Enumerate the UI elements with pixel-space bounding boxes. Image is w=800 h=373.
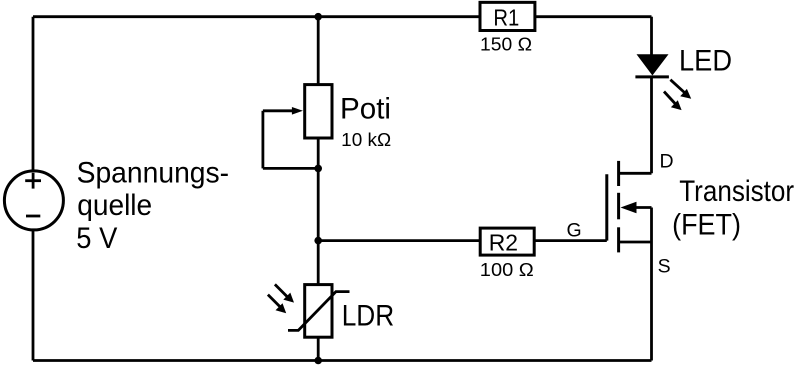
wire left rail upper — [32, 17, 35, 171]
transistor body-source vertical — [650, 208, 653, 243]
svg-text:5 V: 5 V — [76, 222, 117, 255]
svg-text:100 Ω: 100 Ω — [480, 259, 534, 280]
svg-text:S: S — [658, 256, 671, 278]
svg-text:LDR: LDR — [342, 300, 395, 333]
label 100 Ohm — [480, 259, 534, 280]
wire R2 right to gate — [534, 239, 607, 242]
label LED — [679, 45, 732, 78]
wire left rail lower — [32, 230, 35, 361]
LED cathode bar — [635, 75, 669, 78]
label LDR — [342, 300, 395, 333]
LDR body — [305, 285, 332, 338]
svg-text:R2: R2 — [489, 230, 518, 256]
wire bottom rail — [33, 359, 652, 362]
LED D1 triangle — [638, 55, 667, 74]
wire middle vertical center — [317, 139, 320, 287]
svg-text:Spannungs-: Spannungs- — [77, 157, 230, 190]
potentiometer P1 body — [305, 85, 332, 138]
transistor channel dash middle — [617, 193, 620, 220]
resistor R1 — [480, 2, 535, 30]
svg-text:LED: LED — [679, 45, 732, 78]
LDR light arrow 2 — [268, 295, 286, 314]
label Spannungsquelle 5 V — [76, 157, 229, 255]
transistor Q1 FET drain horizontal — [619, 172, 652, 175]
svg-text:D: D — [660, 151, 674, 173]
potentiometer wiper arrow — [263, 107, 303, 115]
LDR light arrow 1 — [275, 284, 294, 302]
transistor channel dash top — [617, 161, 620, 186]
potentiometer wiper wire vertical — [261, 111, 264, 169]
svg-text:(FET): (FET) — [672, 209, 741, 242]
voltage source minus sign — [26, 215, 40, 218]
transistor gate bar — [605, 174, 608, 240]
junction node wiper — [314, 165, 322, 173]
svg-text:R1: R1 — [493, 5, 519, 31]
wire LED anode — [650, 17, 653, 56]
svg-text:quelle: quelle — [77, 189, 152, 222]
voltage source plus sign — [25, 173, 41, 189]
pin label S — [658, 256, 671, 278]
label Poti 10 kOhm — [340, 93, 391, 150]
LED emission arrow 1 — [670, 80, 691, 99]
wire R2 left — [318, 239, 481, 242]
label Transistor (FET) — [672, 175, 794, 242]
voltage source V1 circle — [4, 171, 63, 230]
svg-text:Transistor: Transistor — [679, 175, 794, 208]
svg-text:150 Ω: 150 Ω — [480, 34, 532, 55]
label 150 Ohm — [480, 34, 532, 55]
junction node R2 — [314, 237, 322, 245]
wire middle vertical upper — [317, 17, 320, 86]
pin label D — [660, 151, 674, 173]
junction node bottom — [314, 357, 322, 365]
transistor source horizontal — [619, 241, 652, 244]
wire FET source down — [650, 242, 653, 361]
pin label G — [567, 219, 582, 241]
svg-text:G: G — [567, 219, 582, 241]
junction node top — [314, 13, 322, 21]
potentiometer wiper wire horizontal — [263, 167, 318, 170]
transistor channel dash bottom — [617, 227, 620, 252]
wire middle vertical lower — [317, 337, 320, 361]
svg-text:10 kΩ: 10 kΩ — [341, 129, 391, 150]
LED emission arrow 2 — [664, 92, 682, 111]
resistor R2 — [480, 228, 534, 255]
transistor body arrow — [621, 202, 652, 214]
svg-text:Poti: Poti — [340, 93, 391, 126]
wire top rail — [33, 15, 652, 18]
wire LED cathode to FET drain — [650, 77, 653, 173]
LDR diagonal stroke — [288, 292, 350, 331]
